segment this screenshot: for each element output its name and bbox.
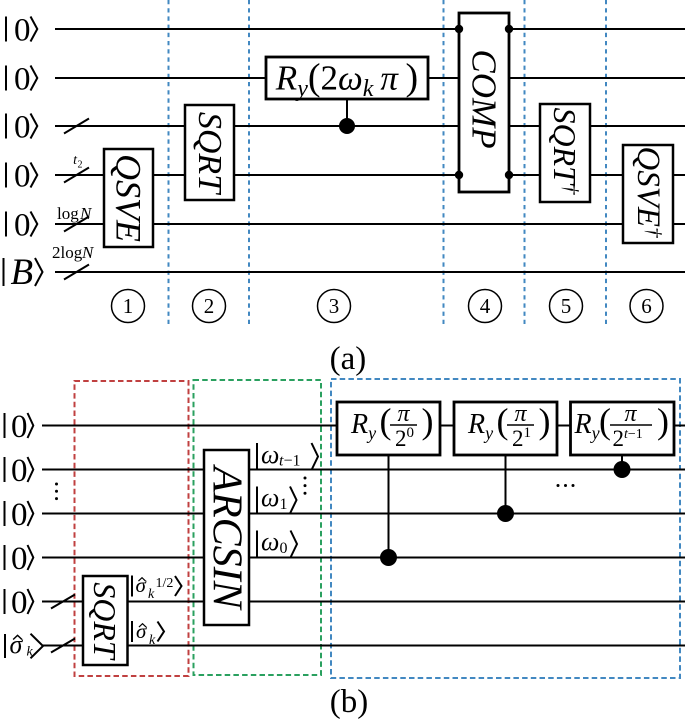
svg-text:6: 6 bbox=[641, 294, 652, 318]
svg-text:ARCSIN: ARCSIN bbox=[204, 463, 250, 610]
svg-text:N: N bbox=[81, 243, 95, 262]
svg-text:(: ( bbox=[497, 401, 509, 441]
svg-text:π: π bbox=[624, 401, 637, 427]
svg-text:QSVE†: QSVE† bbox=[630, 146, 666, 238]
svg-text:π: π bbox=[514, 401, 527, 427]
svg-text:k: k bbox=[149, 633, 156, 648]
svg-text:ω: ω bbox=[261, 483, 279, 512]
svg-text:SQRT†: SQRT† bbox=[547, 108, 583, 195]
svg-text:1: 1 bbox=[123, 294, 134, 318]
svg-text:N: N bbox=[79, 204, 93, 223]
svg-text:0: 0 bbox=[11, 409, 28, 445]
svg-text:COMP: COMP bbox=[465, 49, 504, 148]
svg-text:0: 0 bbox=[280, 540, 288, 557]
svg-text:ω: ω bbox=[261, 440, 279, 469]
svg-text:B: B bbox=[11, 252, 34, 293]
svg-text:5: 5 bbox=[561, 294, 572, 318]
svg-text:0: 0 bbox=[14, 13, 31, 49]
svg-text:0: 0 bbox=[11, 585, 28, 621]
svg-text:): ) bbox=[422, 401, 434, 441]
svg-text:1/2: 1/2 bbox=[156, 576, 174, 591]
svg-text:ω: ω bbox=[261, 527, 279, 556]
svg-text:0: 0 bbox=[14, 110, 31, 146]
svg-text:σ: σ bbox=[136, 619, 148, 643]
svg-text:2: 2 bbox=[204, 294, 215, 318]
svg-text:2: 2 bbox=[78, 160, 83, 171]
svg-text:t−1: t−1 bbox=[279, 453, 300, 470]
svg-text:(: ( bbox=[599, 401, 611, 441]
svg-text:1: 1 bbox=[280, 496, 288, 513]
svg-text:0: 0 bbox=[11, 497, 28, 533]
svg-text:0: 0 bbox=[11, 453, 28, 489]
svg-text:π: π bbox=[397, 401, 410, 427]
svg-text:SQRT: SQRT bbox=[191, 112, 228, 195]
svg-text:(: ( bbox=[380, 401, 392, 441]
svg-text:(b): (b) bbox=[330, 684, 368, 719]
svg-text:Ry(2ωk π ): Ry(2ωk π ) bbox=[275, 57, 418, 103]
svg-text:0: 0 bbox=[14, 62, 31, 98]
svg-text:4: 4 bbox=[480, 294, 491, 318]
svg-text:QSVE: QSVE bbox=[109, 154, 149, 242]
svg-text:0: 0 bbox=[11, 541, 28, 577]
svg-text:k: k bbox=[148, 587, 155, 602]
svg-text:3: 3 bbox=[329, 294, 340, 318]
svg-text:(a): (a) bbox=[330, 341, 367, 377]
svg-text:SQRT: SQRT bbox=[87, 582, 123, 661]
svg-text:): ) bbox=[657, 401, 669, 441]
svg-text:): ) bbox=[539, 401, 551, 441]
svg-text:0: 0 bbox=[14, 159, 31, 195]
svg-text:0: 0 bbox=[14, 208, 31, 244]
svg-text:2log: 2log bbox=[52, 243, 83, 262]
svg-text:log: log bbox=[57, 204, 79, 223]
svg-text:σ: σ bbox=[136, 573, 148, 597]
svg-text:σ: σ bbox=[10, 630, 24, 659]
